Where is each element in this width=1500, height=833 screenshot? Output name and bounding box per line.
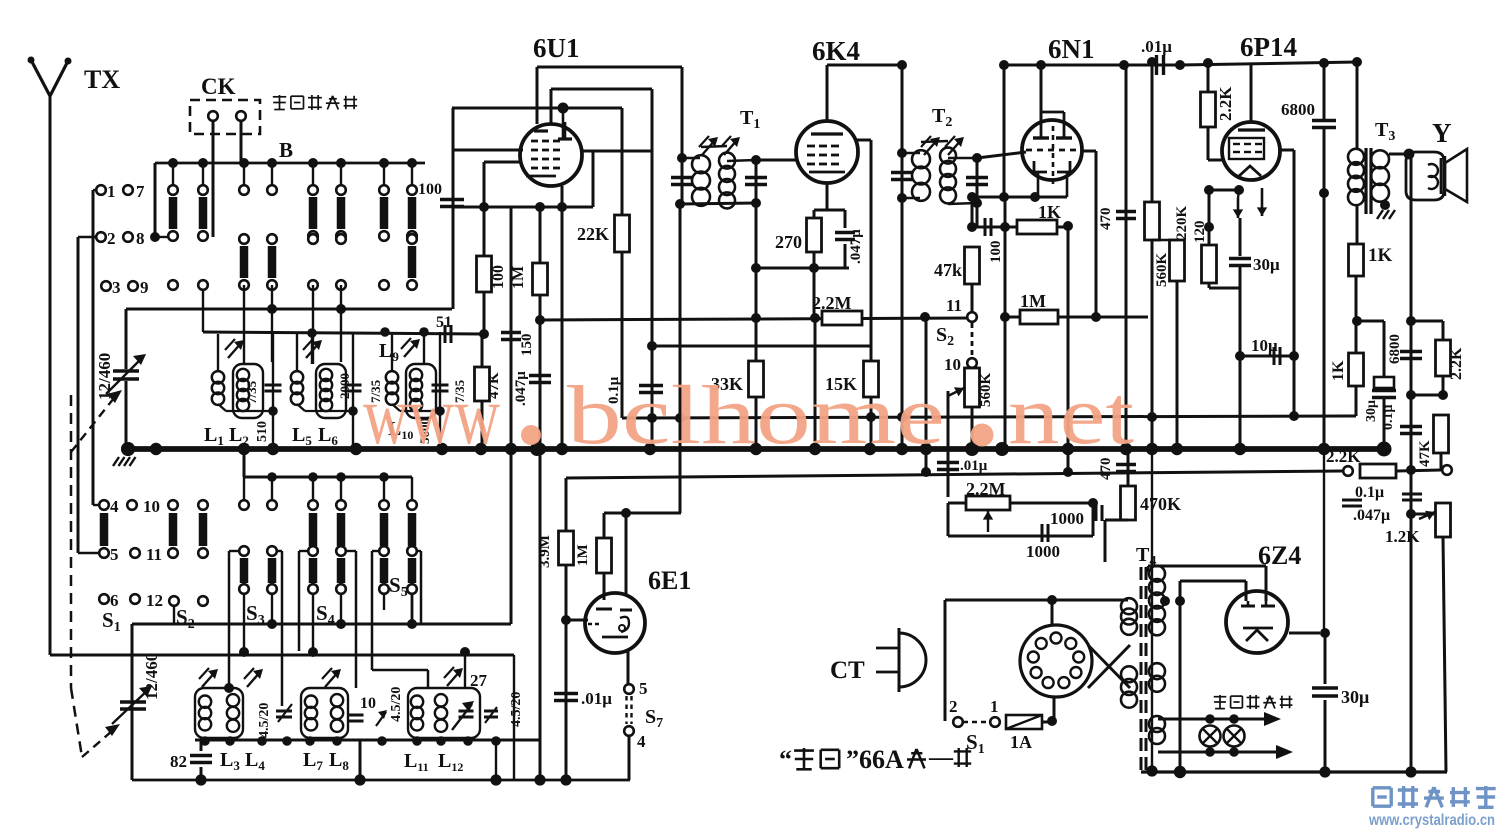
svg-text:S2: S2 bbox=[176, 605, 195, 632]
svg-text:4.5/20: 4.5/20 bbox=[257, 703, 272, 738]
svg-text:www.crystalradio.cn: www.crystalradio.cn bbox=[1368, 812, 1495, 829]
svg-text:2: 2 bbox=[949, 697, 958, 716]
svg-text:9: 9 bbox=[140, 278, 149, 297]
svg-text:net: net bbox=[1008, 369, 1134, 462]
svg-text:1: 1 bbox=[990, 697, 999, 716]
svg-text:1.2K: 1.2K bbox=[1385, 527, 1420, 546]
svg-text:S1: S1 bbox=[966, 730, 985, 757]
svg-text:L8: L8 bbox=[329, 749, 349, 773]
svg-text:L4: L4 bbox=[245, 749, 265, 773]
svg-text:3: 3 bbox=[112, 278, 121, 297]
svg-text:L11: L11 bbox=[404, 750, 429, 774]
svg-text:1K: 1K bbox=[1368, 245, 1393, 266]
svg-text:100: 100 bbox=[418, 181, 442, 198]
svg-text:www: www bbox=[363, 369, 500, 462]
svg-text:T1: T1 bbox=[740, 107, 760, 132]
svg-text:0.1μ: 0.1μ bbox=[1355, 484, 1384, 501]
svg-text:27: 27 bbox=[470, 671, 488, 690]
svg-text:30μ: 30μ bbox=[1364, 400, 1379, 422]
svg-text:1000: 1000 bbox=[1050, 509, 1084, 528]
svg-text:560K: 560K bbox=[1154, 253, 1170, 288]
svg-text:8: 8 bbox=[136, 229, 145, 248]
svg-text:6E1: 6E1 bbox=[648, 566, 691, 595]
svg-text:12: 12 bbox=[146, 591, 163, 610]
svg-text:470: 470 bbox=[1098, 208, 1114, 231]
svg-text:30μ: 30μ bbox=[1253, 255, 1280, 274]
svg-text:L6: L6 bbox=[318, 424, 338, 448]
svg-text:11: 11 bbox=[146, 545, 162, 564]
svg-text:150: 150 bbox=[519, 334, 535, 357]
svg-text:L5: L5 bbox=[292, 424, 312, 448]
svg-text:1000: 1000 bbox=[1026, 542, 1060, 561]
svg-text:1K: 1K bbox=[1330, 360, 1347, 381]
svg-text:6800: 6800 bbox=[1281, 100, 1315, 119]
svg-text:10: 10 bbox=[143, 497, 160, 516]
svg-text:CK: CK bbox=[201, 74, 236, 99]
svg-text:10: 10 bbox=[944, 355, 961, 374]
svg-text:6K4: 6K4 bbox=[812, 36, 860, 66]
svg-text:4.5/20: 4.5/20 bbox=[389, 687, 404, 722]
svg-text:2.2K: 2.2K bbox=[1448, 347, 1465, 380]
svg-text:4: 4 bbox=[110, 497, 119, 516]
svg-text:1A: 1A bbox=[1010, 732, 1032, 752]
svg-text:1: 1 bbox=[107, 182, 116, 201]
svg-text:2: 2 bbox=[107, 229, 116, 248]
svg-text:—: — bbox=[928, 745, 954, 771]
svg-text:bclhome: bclhome bbox=[567, 369, 945, 462]
svg-text:22K: 22K bbox=[577, 224, 609, 244]
svg-text:L7: L7 bbox=[303, 749, 323, 773]
svg-text:.047μ: .047μ bbox=[848, 229, 864, 264]
svg-text:7/35: 7/35 bbox=[244, 380, 259, 404]
svg-text:2.2K: 2.2K bbox=[1326, 447, 1361, 466]
svg-text:”66A: ”66A bbox=[846, 745, 904, 774]
svg-text:B: B bbox=[279, 138, 293, 162]
svg-text:47K: 47K bbox=[1417, 440, 1433, 467]
svg-text:1M: 1M bbox=[1020, 291, 1046, 311]
svg-text:L2: L2 bbox=[229, 424, 249, 448]
svg-text:1M: 1M bbox=[510, 266, 527, 289]
svg-text:12/460: 12/460 bbox=[95, 353, 114, 400]
svg-text:T2: T2 bbox=[932, 105, 952, 130]
svg-text:30μ: 30μ bbox=[1341, 687, 1369, 707]
svg-text:10μ: 10μ bbox=[1251, 336, 1278, 355]
svg-text:220K: 220K bbox=[1174, 206, 1190, 241]
svg-text:S2: S2 bbox=[936, 324, 954, 349]
svg-text:7: 7 bbox=[136, 182, 145, 201]
svg-text:10: 10 bbox=[360, 695, 376, 712]
svg-text:1K: 1K bbox=[1038, 202, 1061, 222]
svg-text:560K: 560K bbox=[978, 373, 994, 408]
svg-text:L3: L3 bbox=[220, 749, 240, 773]
svg-text:S5: S5 bbox=[389, 573, 408, 600]
svg-text:5: 5 bbox=[110, 545, 119, 564]
svg-text:CT: CT bbox=[830, 657, 865, 684]
svg-text:2.2K: 2.2K bbox=[1216, 86, 1235, 121]
svg-text:100: 100 bbox=[490, 265, 507, 289]
svg-text:510: 510 bbox=[255, 421, 270, 442]
svg-text:82: 82 bbox=[170, 752, 187, 771]
svg-text:47k: 47k bbox=[934, 260, 962, 280]
svg-text:L1: L1 bbox=[204, 424, 224, 448]
svg-text:L12: L12 bbox=[438, 750, 463, 774]
svg-text:6U1: 6U1 bbox=[533, 33, 580, 63]
svg-text:6P14: 6P14 bbox=[1240, 32, 1297, 62]
svg-text:6N1: 6N1 bbox=[1048, 34, 1095, 64]
svg-text:“: “ bbox=[779, 745, 792, 774]
svg-text:.01μ: .01μ bbox=[1141, 37, 1172, 56]
svg-text:4: 4 bbox=[637, 732, 646, 751]
svg-text:T3: T3 bbox=[1375, 119, 1395, 144]
svg-text:4.5/20: 4.5/20 bbox=[509, 692, 524, 727]
svg-text:S7: S7 bbox=[645, 706, 663, 731]
svg-text:6Z4: 6Z4 bbox=[1258, 541, 1301, 570]
svg-text:.01μ: .01μ bbox=[960, 458, 988, 474]
svg-text:470K: 470K bbox=[1140, 494, 1181, 514]
svg-text:2000: 2000 bbox=[337, 373, 352, 399]
svg-text:S1: S1 bbox=[102, 608, 121, 635]
svg-text:1M: 1M bbox=[575, 544, 591, 566]
svg-text:.01μ: .01μ bbox=[581, 689, 612, 708]
svg-text:TX: TX bbox=[84, 65, 120, 94]
svg-text:11: 11 bbox=[946, 296, 962, 315]
svg-text:L9: L9 bbox=[379, 340, 399, 364]
svg-text:100: 100 bbox=[988, 241, 1004, 264]
svg-text:3.9M: 3.9M bbox=[537, 535, 553, 568]
svg-text:Y: Y bbox=[1432, 118, 1452, 148]
svg-text:.047μ: .047μ bbox=[1353, 507, 1390, 524]
svg-text:120: 120 bbox=[1192, 221, 1208, 244]
svg-text:270: 270 bbox=[775, 232, 802, 252]
svg-text:.047μ: .047μ bbox=[513, 371, 529, 406]
svg-text:5: 5 bbox=[639, 679, 648, 698]
